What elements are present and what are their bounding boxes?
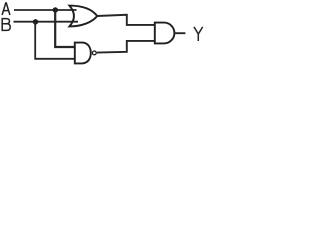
NAND gate U2 body xyxy=(75,43,91,64)
node Y label xyxy=(194,27,203,41)
node A label xyxy=(2,2,10,15)
wire A branch to NAND top input xyxy=(55,10,75,47)
junction dot on B xyxy=(33,19,38,24)
wire A input xyxy=(14,9,77,11)
OR gate U1 xyxy=(69,6,97,27)
background xyxy=(0,0,205,69)
NAND gate U2 output bubble xyxy=(92,51,96,55)
wire B branch to NAND bottom input xyxy=(35,22,75,59)
wire B input xyxy=(14,21,79,23)
wire AND output xyxy=(175,32,186,34)
wire OR output to AND top input xyxy=(97,15,155,25)
AND gate U3 xyxy=(155,23,175,44)
node B label xyxy=(2,19,10,31)
wire NAND output to AND bottom input xyxy=(97,41,155,53)
junction dot on A xyxy=(53,7,58,12)
